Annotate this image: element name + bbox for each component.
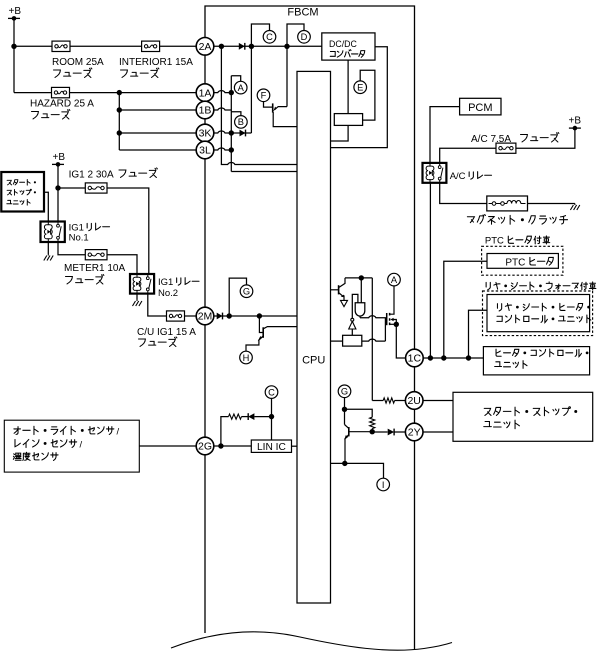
- connector F circle: [257, 89, 270, 102]
- wire resistor to 2U: [395, 400, 406, 402]
- node 2A bus1: [219, 44, 224, 49]
- wire CPU to R2: [331, 340, 343, 342]
- wire to 3K: [119, 132, 196, 134]
- wire relay1 switch to METER1 fuse: [58, 242, 85, 255]
- rear seat heater control unit box: [487, 295, 590, 332]
- wire 1C to heater control unit: [423, 357, 483, 359]
- wire up to rear seat heater unit: [469, 310, 488, 358]
- node bus2 3K: [229, 130, 234, 135]
- wire node down to LIN IC: [271, 417, 273, 440]
- LIN IC box: [251, 440, 291, 452]
- fuse ROOM 25A: [52, 41, 70, 51]
- svg-text:PTC: PTC: [485, 236, 504, 247]
- internal ground triangle: [341, 300, 348, 306]
- FBCM module box: [205, 6, 415, 650]
- start-stop unit box (right): [453, 392, 593, 441]
- node bus2 1A: [229, 90, 234, 95]
- fuse INTERIOR1 15A: [142, 41, 160, 51]
- wire hazard bus down: [118, 93, 120, 150]
- CPU U2 box: [297, 71, 331, 603]
- connector C circle lower: [265, 386, 278, 399]
- connector I circle: [377, 478, 390, 491]
- wire R5 to base node: [371, 429, 373, 432]
- svg-text:FBCM: FBCM: [287, 7, 318, 19]
- wire 2M to CPU: [214, 315, 297, 317]
- wire bus2 to CPU: [231, 171, 297, 173]
- wire 3K to diode D2: [231, 132, 251, 134]
- resistor R1 box: [334, 114, 362, 126]
- node G branch: [342, 407, 347, 412]
- wire 1A to bus2 with crossover: [214, 91, 232, 93]
- diode D4 to 2Y: [388, 429, 394, 436]
- svg-text:CPU: CPU: [302, 354, 325, 366]
- wire relay switch to magnet clutch: [440, 183, 487, 204]
- wire 1B to bus2 with crossover: [214, 108, 232, 110]
- ground right of clutch: [570, 204, 579, 211]
- wire gate output: [360, 316, 385, 318]
- svg-text:1B: 1B: [199, 105, 212, 117]
- wire ROOM fuse to INTERIOR1 fuse: [70, 45, 142, 47]
- diode D5 pointing left: [248, 413, 254, 420]
- connector 2Y: [405, 423, 423, 441]
- hook to connector D: [287, 24, 304, 46]
- wire METER1 fuse to relay2 coil: [107, 255, 137, 274]
- connector 2G: [196, 437, 214, 455]
- svg-text:IG1: IG1: [158, 277, 173, 288]
- wire G down: [344, 398, 346, 425]
- wire IG1-2 fuse to relay2 switch: [107, 188, 149, 274]
- transistor Q4: [344, 425, 349, 464]
- power +B1 top-left: [8, 6, 21, 21]
- wire +B3 to A/C fuse: [516, 128, 575, 148]
- relay IG1 No.1: [41, 222, 65, 243]
- hook to connector G: [229, 278, 246, 316]
- svg-text:METER1 10A: METER1 10A: [64, 263, 125, 274]
- node 2G branch: [218, 443, 223, 448]
- wire sensor box to 2G: [139, 445, 196, 447]
- svg-text:1A: 1A: [199, 87, 212, 99]
- wire bus2 vertical: [230, 76, 232, 172]
- wire node up to connector C2: [271, 399, 273, 417]
- node Q2 collector: [359, 275, 364, 280]
- svg-text:1C: 1C: [408, 353, 422, 365]
- wire diode to 2Y: [394, 431, 406, 433]
- wire +B1 down: [13, 18, 15, 92]
- svg-text:ROOM 25A: ROOM 25A: [52, 57, 104, 68]
- wire relay2 switch to C/U fuse: [148, 294, 167, 316]
- connector B circle: [235, 116, 248, 129]
- svg-text:2A: 2A: [199, 41, 212, 53]
- node hazard bus 1B: [117, 107, 122, 112]
- inverter U5 triangle with bubble: [349, 318, 356, 329]
- break wave line: [171, 632, 452, 650]
- magnet clutch coil box: [487, 196, 528, 211]
- wire 2G branch up to resistor: [221, 417, 229, 446]
- wire up to PTC heater: [444, 261, 487, 358]
- relay IG1 No.2: [130, 274, 154, 294]
- connector 2A: [196, 38, 214, 56]
- node hazard bus 3K: [117, 130, 122, 135]
- wire clutch to ground: [528, 203, 575, 205]
- wire 2U resistor: [372, 400, 383, 402]
- svg-text:+B: +B: [569, 116, 582, 127]
- node 1C rear seat: [466, 355, 471, 360]
- svg-text:3L: 3L: [199, 145, 211, 157]
- fuse A/C 7.5A: [496, 143, 516, 153]
- svg-text:H: H: [243, 353, 250, 363]
- wire fuse to 2M: [185, 315, 197, 317]
- wire node to 3K diode: [250, 46, 252, 133]
- svg-text:2U: 2U: [407, 395, 420, 407]
- svg-text:A/C: A/C: [450, 171, 466, 182]
- svg-text:No.2: No.2: [158, 288, 178, 299]
- power +B2: [52, 152, 65, 167]
- node 2A after diode: [249, 44, 254, 49]
- wire node down to gate U4: [360, 278, 362, 303]
- wire Q2 collector to node: [345, 277, 372, 279]
- wire F to Q1 base: [264, 102, 273, 108]
- start-stop unit text: [7, 180, 35, 186]
- transistor Q1: [273, 103, 297, 126]
- node Q4 base: [370, 429, 375, 434]
- relay A/C: [423, 163, 447, 183]
- svg-text:F: F: [261, 91, 267, 101]
- sensor box text line1: [14, 426, 114, 434]
- wire 3K to bus2 with crossover: [214, 131, 232, 133]
- node 2A D-branch: [284, 44, 289, 49]
- svg-text:DC/DC: DC/DC: [329, 39, 358, 49]
- wire to 3L: [119, 149, 196, 151]
- label heater control unit: [496, 349, 588, 357]
- svg-text:+B: +B: [9, 6, 22, 17]
- wire 2U to start-stop unit: [423, 400, 453, 402]
- resistor R4: [383, 398, 394, 403]
- wire resistor to diode D5: [242, 416, 249, 418]
- transistor Q2 top: [331, 278, 346, 301]
- power +B3 top-right: [569, 116, 582, 131]
- node 2M G-branch: [227, 313, 232, 318]
- wire base node to diode D4: [372, 431, 387, 433]
- diode D2 on 3K line: [240, 130, 246, 137]
- wire to HAZARD fuse: [14, 92, 52, 94]
- svg-text:IG1 2 30A: IG1 2 30A: [69, 170, 114, 181]
- ground under relay1 coil: [47, 242, 49, 254]
- svg-text:A: A: [391, 275, 398, 285]
- fuse HAZARD 25A: [52, 87, 70, 97]
- connector G circle right: [338, 385, 351, 398]
- svg-text:HAZARD 25 A: HAZARD 25 A: [30, 99, 94, 110]
- svg-text:/: /: [117, 426, 120, 437]
- connector E circle: [354, 81, 367, 94]
- wire to ROOM fuse: [14, 45, 52, 47]
- wire PCM to A/C relay: [430, 107, 460, 163]
- sensor box text line2: [15, 439, 77, 447]
- node +B1 branch: [11, 44, 16, 49]
- node IG1-2 fuse branch: [55, 185, 60, 190]
- svg-text:/: /: [80, 439, 83, 450]
- wire base node to Q4: [349, 431, 372, 433]
- hook connector E to R1: [360, 70, 375, 120]
- connector C circle: [263, 31, 276, 44]
- wire to 1B: [119, 109, 196, 111]
- wire G branch to resistor R5: [345, 409, 373, 417]
- node bus2 3L: [229, 147, 234, 152]
- start-stop unit box (left): [1, 172, 44, 212]
- rear seat dashed box: [483, 291, 593, 336]
- wire +B2 down to relay switch: [57, 164, 59, 221]
- wire diode to node: [254, 416, 271, 418]
- wire 2Y to start-stop unit: [423, 431, 453, 433]
- connector A circle right: [388, 273, 401, 286]
- node hazard bus 1A: [117, 90, 122, 95]
- svg-text:2G: 2G: [198, 441, 212, 453]
- transistor Q3 with H: [246, 316, 297, 351]
- PTC heater box: [487, 254, 558, 269]
- wire up to A/C relay coil: [429, 183, 431, 358]
- resistor R3: [229, 414, 242, 419]
- sensor box text line3: [13, 452, 58, 460]
- MOSFET Q5: [385, 286, 396, 325]
- wire bus1 down to CPU: [221, 46, 297, 164]
- svg-text:C: C: [266, 32, 273, 42]
- svg-text:3K: 3K: [199, 128, 212, 140]
- fuse C/U IG1 15A: [167, 311, 185, 321]
- wire LIN IC to CPU: [292, 445, 298, 447]
- wire emitter line to CPU and I: [331, 463, 384, 478]
- svg-text:G: G: [341, 387, 348, 397]
- svg-text:G: G: [243, 287, 250, 297]
- wire 2G to LIN IC: [214, 445, 252, 447]
- label start-stop unit right: [484, 407, 576, 416]
- label rear seat warmer option: [486, 282, 596, 290]
- hook to connector A: [231, 76, 240, 82]
- connector 1C: [406, 349, 424, 367]
- gate U4 shape: [355, 303, 365, 316]
- svg-text:2Y: 2Y: [408, 427, 421, 439]
- svg-text:2M: 2M: [198, 311, 213, 323]
- node 1C PTC: [441, 355, 446, 360]
- wire start-stop unit to relay coil: [44, 192, 48, 221]
- svg-text:INTERIOR1 15A: INTERIOR1 15A: [119, 57, 193, 68]
- ground under relay2 coil: [136, 294, 138, 300]
- wire MOSFET source to 1C: [396, 324, 406, 358]
- auto light rain humidity sensor box: [4, 420, 139, 472]
- hook to connector B: [231, 112, 241, 116]
- svg-text:PTC: PTC: [505, 257, 525, 268]
- connector 3L: [196, 141, 214, 159]
- node MOSFET source: [394, 322, 399, 327]
- wire HAZARD fuse to 1A: [70, 92, 196, 94]
- node C2 branch: [269, 414, 274, 419]
- wire collector node down to 2U resistor: [371, 278, 373, 401]
- node Q4 emitter: [342, 461, 347, 466]
- svg-text:I: I: [382, 480, 385, 490]
- resistor R2 box: [343, 335, 362, 346]
- fuse METER1 10A: [85, 250, 107, 260]
- connector G circle: [240, 285, 253, 298]
- inverter U5 loop to gate: [352, 294, 358, 318]
- wire A/C fuse to relay switch: [440, 148, 496, 163]
- wire 2A to DC/DC converter: [214, 45, 322, 47]
- diode D1 on 2A line: [239, 43, 245, 50]
- svg-text:C: C: [268, 387, 275, 397]
- wire INTERIOR1 fuse to 2A: [160, 45, 197, 47]
- diode D3 after 2M: [217, 313, 223, 320]
- heater control unit box: [483, 347, 589, 375]
- wire R1 to CPU: [331, 125, 349, 141]
- connector 3K: [196, 124, 214, 142]
- label rear seat heater control unit: [497, 303, 589, 311]
- hook to connector C: [251, 24, 269, 46]
- connector H circle: [240, 351, 253, 364]
- connector 1B: [196, 101, 214, 119]
- wire to IG1 2 fuse: [58, 187, 85, 189]
- DC/DC converter U3 box: [322, 33, 375, 60]
- PTC dashed box: [482, 246, 563, 275]
- node 2M Q3-branch: [257, 313, 262, 318]
- wire R2 to MOSFET gate: [362, 339, 386, 341]
- svg-text:PCM: PCM: [468, 102, 492, 114]
- label magnet clutch: [467, 215, 567, 225]
- svg-text:C/U IG1 15 A: C/U IG1 15 A: [137, 327, 196, 338]
- svg-text:LIN IC: LIN IC: [257, 442, 286, 453]
- svg-text:No.1: No.1: [69, 233, 89, 244]
- connector D circle: [298, 31, 311, 44]
- wire D-branch down to transistor Q1: [286, 46, 288, 106]
- wire DC/DC bottom to resistor R1: [347, 60, 349, 114]
- connector 1A: [196, 84, 214, 102]
- connector 2U: [405, 392, 423, 410]
- svg-text:B: B: [238, 117, 244, 127]
- svg-text:+B: +B: [53, 152, 66, 163]
- connector A circle: [234, 81, 247, 94]
- PCM box: [460, 98, 501, 115]
- svg-text:D: D: [301, 32, 308, 42]
- wire DC/DC right output: [331, 47, 388, 148]
- svg-text:E: E: [357, 83, 363, 93]
- svg-text:A: A: [238, 83, 245, 93]
- wire inverter input from R2: [351, 329, 353, 335]
- fuse IG1 2 30A: [85, 183, 107, 193]
- svg-text:A/C 7.5A: A/C 7.5A: [471, 134, 511, 145]
- connector 2M: [196, 307, 214, 325]
- wire 3L to bus2 with crossover: [214, 148, 232, 150]
- node 1C AC-relay: [428, 355, 433, 360]
- resistor R5 vertical: [370, 417, 375, 428]
